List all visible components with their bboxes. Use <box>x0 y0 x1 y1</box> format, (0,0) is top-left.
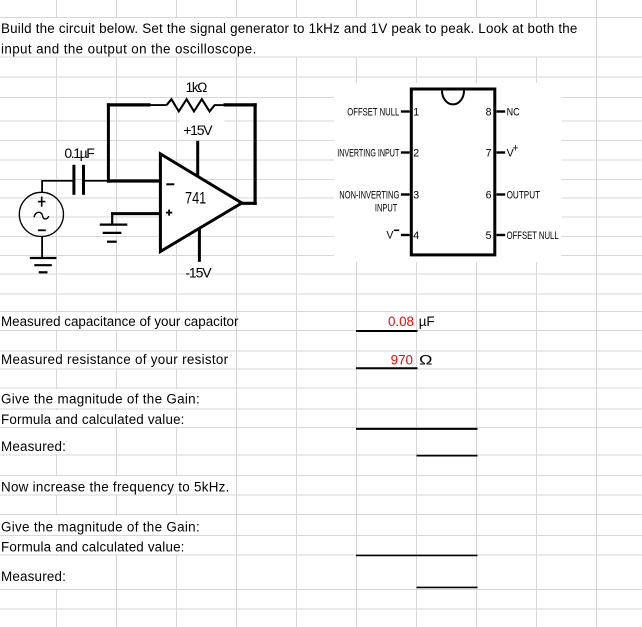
pin 4 label V- <box>386 229 399 241</box>
wire: feedback top-right segment <box>224 103 257 106</box>
op-amp U1 DIP-8 body <box>411 89 495 255</box>
pin number 1 <box>413 106 419 118</box>
cell border formula answer line 2 <box>356 554 478 556</box>
instruction text <box>1 21 578 57</box>
svg-text:INPUT: INPUT <box>375 203 398 215</box>
svg-text:1kΩ: 1kΩ <box>186 80 208 95</box>
signal generator source <box>19 192 63 236</box>
label -15V <box>185 264 212 280</box>
pin 1 tick <box>401 110 410 112</box>
ground (signal generator) <box>30 258 57 272</box>
cell border measured answer line 2 <box>417 586 478 588</box>
svg-text:970: 970 <box>391 352 413 367</box>
cell border under resistance value <box>356 367 418 369</box>
svg-text:OUTPUT: OUTPUT <box>507 189 541 201</box>
cell border formula answer line 1 <box>356 428 478 430</box>
measured capacitance row <box>1 314 435 329</box>
svg-text:-15V: -15V <box>185 264 212 280</box>
svg-text:Formula and calculated value:: Formula and calculated value: <box>1 540 185 555</box>
svg-text:0.1µF: 0.1µF <box>64 145 94 161</box>
svg-text:Measured resistance of your re: Measured resistance of your resistor <box>1 352 229 367</box>
svg-text:Formula and calculated value:: Formula and calculated value: <box>1 412 185 427</box>
pin number 7 <box>486 147 492 159</box>
pin number 8 <box>486 106 492 118</box>
pin 1 label OFFSET NULL <box>347 106 399 118</box>
IC pinout image white background <box>334 83 562 262</box>
svg-text:741: 741 <box>185 190 206 208</box>
svg-text:Measured capacitance of your c: Measured capacitance of your capacitor <box>1 314 239 329</box>
second gain question rows <box>1 519 200 584</box>
svg-text:Build the circuit below. Set: Build the circuit below. Set the signal … <box>1 21 578 36</box>
svg-text:NON-INVERTING: NON-INVERTING <box>339 189 399 201</box>
svg-text:3: 3 <box>413 189 419 201</box>
svg-text:OFFSET NULL: OFFSET NULL <box>347 106 399 118</box>
svg-text:V: V <box>386 229 394 241</box>
svg-text:INVERTING INPUT: INVERTING INPUT <box>337 147 399 159</box>
svg-text:Give the magnitude of the Gain: Give the magnitude of the Gain: <box>1 519 200 534</box>
wire: source top stub <box>41 180 43 192</box>
label +15V <box>183 122 213 138</box>
wire: feedback top-left segment <box>107 103 151 106</box>
wire: resistor right lead <box>214 104 226 106</box>
gain question rows <box>1 391 200 454</box>
measured resistance row <box>1 352 433 367</box>
wire: non-inverting input <box>111 212 161 215</box>
pin 8 label NC <box>507 106 520 118</box>
pin 2 label INVERTING INPUT <box>337 147 399 159</box>
pin 8 tick <box>497 110 506 112</box>
svg-text:4: 4 <box>413 230 419 242</box>
pin number 4 <box>413 230 419 242</box>
svg-text:Ω: Ω <box>419 352 433 367</box>
pin 7 label V+ <box>507 143 519 160</box>
svg-text:input and the output on the os: input and the output on the oscilloscope… <box>1 42 257 57</box>
svg-text:8: 8 <box>486 106 492 118</box>
svg-text:Measured:: Measured: <box>1 439 66 454</box>
pin number 6 <box>486 189 492 201</box>
wire: resistor left lead <box>150 104 168 106</box>
pin 7 tick <box>497 151 506 153</box>
frequency instruction row <box>1 479 230 494</box>
svg-text:NC: NC <box>507 106 520 118</box>
wire: junction to inverting input <box>107 179 161 182</box>
svg-text:0.08: 0.08 <box>388 314 414 329</box>
svg-text:6: 6 <box>486 189 492 201</box>
cell border measured answer line 1 <box>417 455 478 457</box>
pin 2 tick <box>401 151 410 153</box>
wire: capacitor to feedback junction <box>85 180 110 182</box>
wire: V+ supply <box>196 141 199 178</box>
pin 3 label NON-INVERTING INPUT <box>339 189 399 214</box>
svg-text:+: + <box>512 143 518 155</box>
pin 6 tick <box>497 193 506 195</box>
pin 4 tick <box>401 234 410 236</box>
svg-text:Now increase the frequency to: Now increase the frequency to 5kHz. <box>1 479 230 494</box>
pin number 2 <box>413 147 419 159</box>
svg-text:2: 2 <box>413 147 419 159</box>
cell border under capacitance value <box>356 330 418 332</box>
svg-text:Measured:: Measured: <box>1 569 66 584</box>
pin 5 label OFFSET NULL <box>507 230 559 242</box>
wire: output stub <box>240 202 257 205</box>
resistor 1k feedback <box>167 98 215 112</box>
svg-text:7: 7 <box>486 147 492 159</box>
pin number 5 <box>486 230 492 242</box>
wire: V- supply <box>198 226 201 262</box>
pin number 3 <box>413 189 419 201</box>
capacitor 0.1uF plates <box>74 165 84 195</box>
pin 6 label OUTPUT <box>507 189 541 201</box>
svg-text:µF: µF <box>419 314 435 329</box>
label 0.1uF <box>64 145 94 161</box>
wire: source bottom stub <box>41 237 43 258</box>
pin 5 tick <box>497 234 506 236</box>
pin 3 tick <box>401 193 410 195</box>
wire: non-inverting ground stub <box>111 214 113 225</box>
svg-text:+15V: +15V <box>183 122 213 138</box>
label +15V textbox white fill <box>179 116 225 138</box>
label 1kOhm <box>186 80 208 95</box>
ground (non-inverting input) <box>100 225 128 242</box>
svg-text:OFFSET NULL: OFFSET NULL <box>507 230 559 242</box>
wire: feedback right vertical <box>254 103 257 205</box>
wire: feedback left vertical <box>107 103 110 182</box>
svg-text:1: 1 <box>413 106 419 118</box>
svg-text:5: 5 <box>486 230 492 242</box>
op-amp 741 <box>160 154 241 252</box>
DIP-8 notch <box>442 91 464 105</box>
svg-text:Give the magnitude of the Gain: Give the magnitude of the Gain: <box>1 391 200 406</box>
wire: source to capacitor <box>42 180 74 182</box>
